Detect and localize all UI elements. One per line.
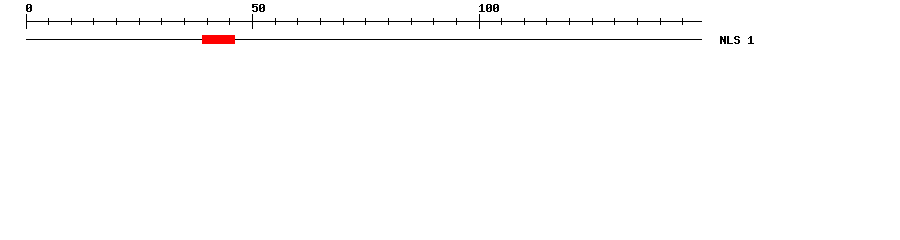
background [0, 0, 900, 58]
ruler label 50 [252, 4, 265, 12]
minor ticks every 5 residues [48, 18, 683, 25]
major tick 50 [252, 14, 253, 29]
major tick 100 [479, 14, 480, 29]
NLS motif box (residues 39-46) [202, 35, 235, 44]
ruler baseline [26, 21, 702, 22]
sequence line [26, 39, 702, 40]
label NLS 1 [720, 36, 754, 44]
ruler label 0 [26, 4, 32, 12]
major tick 0 [26, 14, 27, 29]
ruler label 100 [479, 4, 499, 12]
